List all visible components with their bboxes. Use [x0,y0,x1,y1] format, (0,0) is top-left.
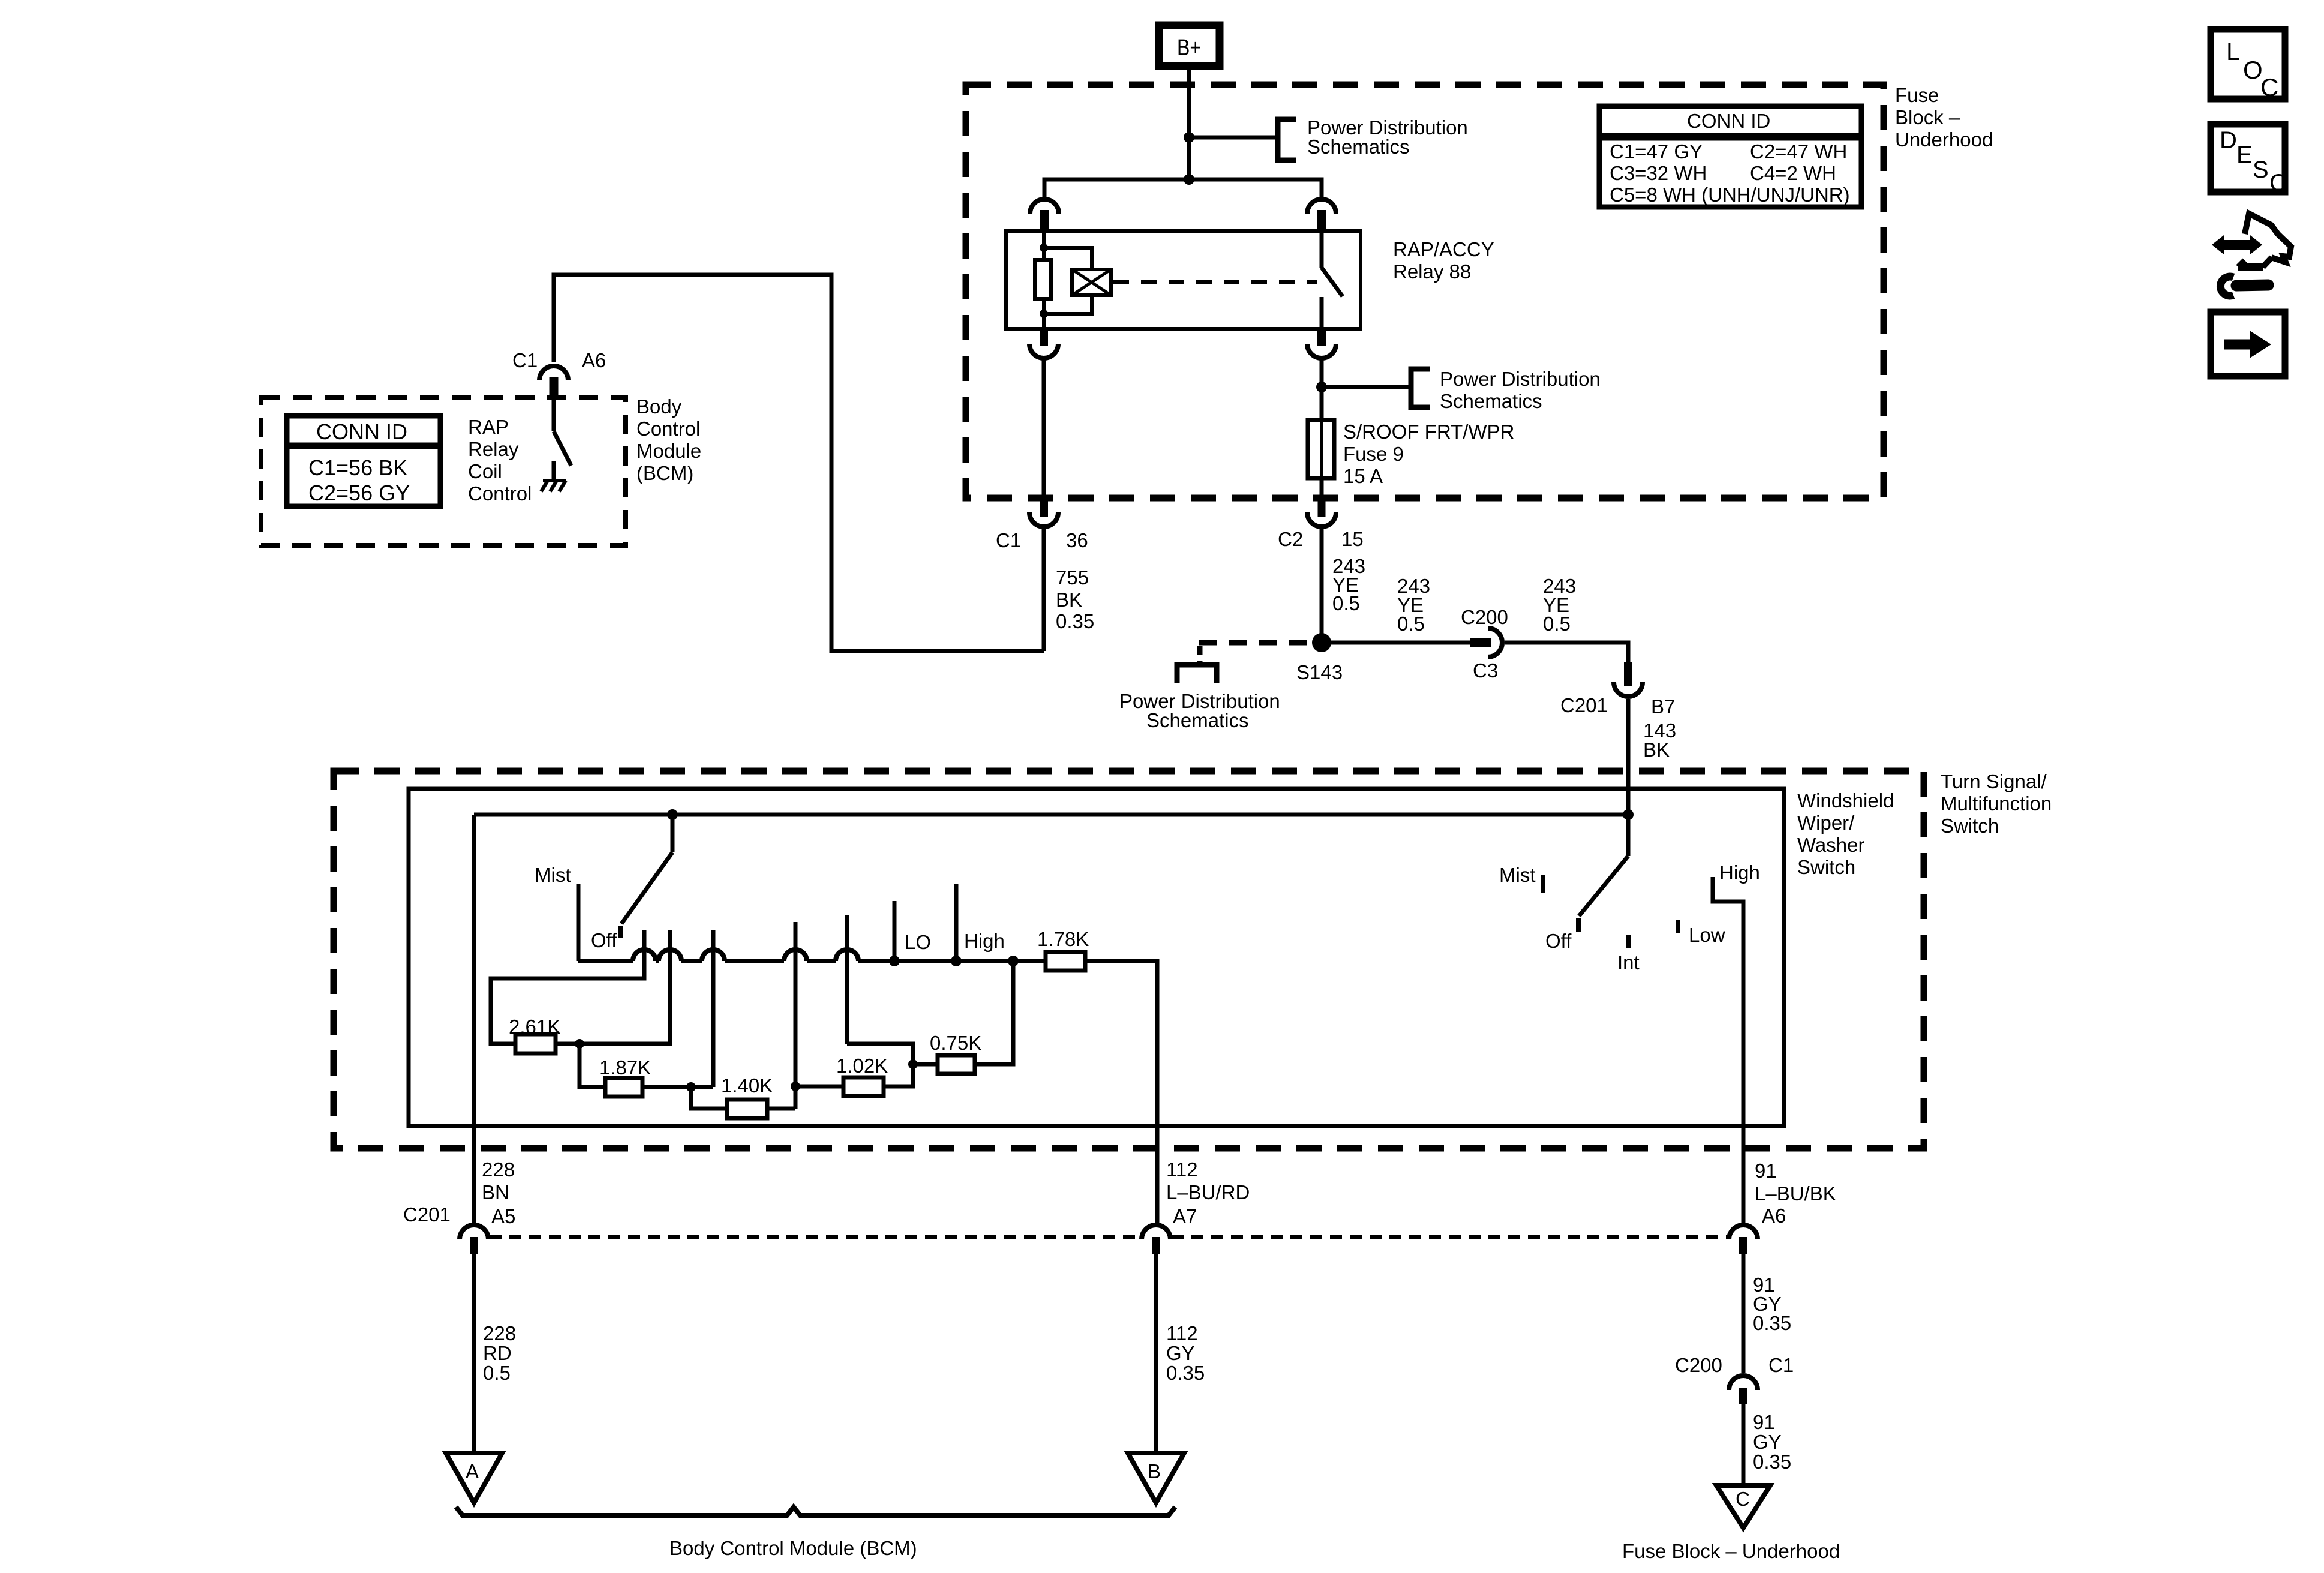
relay K RAP/ACCY Relay 88 box [1006,231,1361,329]
label power distribution schematics (top) [1307,116,1468,158]
svg-text:C3=32 WH: C3=32 WH [1610,162,1707,184]
label wire 91 L-BU/BK [1755,1160,1836,1205]
svg-text:C1=56 BK: C1=56 BK [308,455,407,480]
label Low [1689,924,1725,946]
label High (right) [1719,861,1760,884]
relay coil resistor [1035,231,1051,329]
label body control module [636,395,701,484]
svg-text:A6: A6 [1762,1205,1786,1227]
svg-text:C1: C1 [996,529,1021,551]
node relay coil top [1040,244,1048,252]
label wire 91 GY 0.35 (lower) [1753,1411,1791,1473]
label wire 243 YE 0.5 (second) [1397,575,1430,635]
label S143 [1296,661,1343,683]
label High (ladder) [964,930,1005,952]
label C201 (bottom) [403,1203,451,1226]
fuse F9 S/ROOF FRT/WPR [1308,420,1334,478]
off-page connector bracket (power distribution mid) [1411,369,1430,407]
wire B+ down to feed node [1187,70,1191,179]
resistor 1.87K [605,1078,713,1097]
wire switch feed horizontal [474,813,1628,817]
contact finger 3 [711,930,716,1087]
conn id table (fuse block) [1599,106,1861,207]
label fuse 9 [1343,421,1514,487]
battery feed B+ symbol [1159,25,1220,66]
contact Mist (right) [1541,875,1545,893]
svg-text:C: C [2260,73,2278,101]
svg-text:C: C [1736,1488,1750,1510]
svg-text:Washer: Washer [1797,834,1864,856]
label body control module (bottom) [669,1537,917,1559]
label 1.78K [1037,928,1089,950]
label turn signal multifunction switch [1941,770,2052,837]
label A7 [1173,1205,1197,1227]
svg-text:2.61K: 2.61K [509,1016,560,1038]
svg-text:Off: Off [1545,930,1572,952]
svg-text:C200: C200 [1675,1354,1722,1376]
wire tap [1189,136,1278,140]
svg-text:0.5: 0.5 [1397,613,1425,635]
label A5 [491,1205,515,1227]
label C1 (left) [996,529,1021,551]
connector C201 pin B7 [1614,662,1643,697]
contact Off (right) [1576,918,1581,932]
destination triangle A [446,1453,502,1503]
label C200 (bottom) [1675,1354,1722,1376]
contact Low [1676,920,1680,933]
svg-text:C: C [2269,170,2287,196]
resistor 2.61K [515,1034,580,1053]
svg-text:C4=2 WH: C4=2 WH [1750,162,1836,184]
node ladder 3 [791,1082,800,1091]
svg-text:Fuse: Fuse [1895,84,1939,106]
wire switch output A down [472,815,476,1223]
label 36 [1066,529,1088,551]
svg-text:C201: C201 [403,1203,451,1226]
svg-text:Turn Signal/: Turn Signal/ [1941,770,2047,792]
contact finger 2 [584,930,670,1044]
svg-text:C200: C200 [1461,606,1508,628]
svg-text:0.5: 0.5 [1543,613,1571,635]
connector C2 pin 15 (fuse block right) [1307,498,1336,527]
wire fuse to C2 [1320,478,1324,500]
label 15 [1341,528,1364,550]
svg-text:Control: Control [636,418,700,440]
off-page connector bracket (power distribution top) [1278,119,1296,160]
svg-text:C2: C2 [1278,528,1303,550]
label power distribution schematics (mid) [1440,368,1601,412]
contact High (ladder) [954,884,959,961]
wire C2 to S143 [1320,529,1324,643]
switch rap relay coil control (in BCM) [554,397,571,466]
resistor 1.02K [795,1044,913,1096]
svg-text:High: High [964,930,1005,952]
label wire 112 L-BU/RD [1166,1158,1250,1203]
svg-text:Body: Body [636,395,682,418]
svg-text:0.35: 0.35 [1166,1362,1205,1384]
svg-text:112: 112 [1166,1322,1198,1344]
svg-text:Fuse Block – Underhood: Fuse Block – Underhood [1622,1540,1840,1562]
svg-text:L–BU/BK: L–BU/BK [1755,1182,1836,1205]
svg-text:0.35: 0.35 [1753,1451,1791,1473]
svg-text:S143: S143 [1296,661,1343,683]
label 0.75K [930,1032,981,1054]
svg-text:228: 228 [482,1158,515,1181]
svg-text:Schematics: Schematics [1146,709,1249,731]
relay control dashed link [1113,280,1317,284]
label C200 (top) [1461,606,1508,628]
svg-text:Schematics: Schematics [1307,136,1410,158]
node ladder 4 [908,1059,918,1069]
svg-text:1.87K: 1.87K [599,1056,651,1079]
connector pin A7 [1142,1225,1170,1254]
label fuse block underhood (bottom) [1622,1540,1840,1562]
wire feed split horizontal [1044,179,1322,197]
svg-text:RAP/ACCY: RAP/ACCY [1393,238,1494,260]
svg-text:CONN ID: CONN ID [1687,110,1770,132]
svg-text:A6: A6 [582,349,606,371]
wire node1 down [580,1044,605,1087]
label Off (right) [1545,930,1572,952]
wire S143 to C200 [1331,641,1471,645]
wire node2 down [691,1087,727,1109]
wire 143 BK [1626,699,1631,815]
node tap to power distribution 2 [1316,382,1327,392]
contact finger 4 [794,922,798,1086]
wire relay coil bypass loop [1044,248,1092,314]
svg-text:Module: Module [636,440,701,462]
svg-text:91: 91 [1753,1411,1775,1433]
svg-text:0.35: 0.35 [1753,1312,1791,1334]
label C2 [1278,528,1303,550]
label wire 143 BK [1643,719,1676,761]
connector pin A5 [460,1225,488,1254]
body control module dashed box [261,398,626,545]
icon LOC box [2211,29,2285,101]
label Mist (right) [1499,864,1536,886]
svg-text:BN: BN [482,1181,509,1203]
connector pin relay 85 (right bottom) [1307,329,1336,358]
svg-text:Switch: Switch [1941,815,1999,837]
svg-text:1.78K: 1.78K [1037,928,1089,950]
svg-text:112: 112 [1166,1158,1198,1181]
svg-text:O: O [2243,56,2263,84]
svg-text:L–BU/RD: L–BU/RD [1166,1181,1250,1203]
wire BCM rap relay output loop [554,275,1044,651]
relay solenoid symbol [1072,269,1111,295]
svg-text:Schematics: Schematics [1440,390,1542,412]
wire 91 GY upper [1742,1254,1746,1373]
svg-text:755: 755 [1056,566,1089,589]
contact Off (left) [618,926,623,938]
resistor 0.75K [913,961,1013,1074]
label A6 (bcm pin) [582,349,606,371]
label B7 [1651,695,1675,718]
svg-text:Switch: Switch [1797,856,1855,878]
label Off (left) [591,929,617,951]
label wire 243 YE 0.5 (third) [1543,575,1576,635]
wire C200 to C201 corner [1505,643,1628,664]
contact LO [893,901,897,961]
svg-text:RD: RD [483,1342,512,1364]
label wire 755 BK 0.35 [1056,566,1094,632]
connector pin relay 87 (left bottom) [1029,329,1058,358]
resistor 1.78K [1046,952,1157,1223]
icon forward arrow box [2211,312,2285,376]
node relay coil bottom [1040,310,1048,318]
contact finger 5 [845,915,849,1044]
svg-text:(BCM): (BCM) [636,462,693,484]
node tap to power distribution [1184,132,1194,143]
wire relay left down [1042,359,1046,500]
label wire 228 RD 0.5 [483,1322,516,1384]
svg-text:C3: C3 [1473,659,1498,682]
svg-text:Multifunction: Multifunction [1941,792,2052,815]
icon DESC box [2211,124,2287,196]
connector pin relay 86 (right top) [1307,199,1336,231]
label wire 243 YE 0.5 (first) [1332,555,1365,614]
label LO [905,931,931,953]
connector C200 pin C1 (bottom) [1729,1376,1758,1404]
svg-text:A: A [466,1460,479,1482]
wire tap 2 [1322,385,1410,389]
svg-text:RAP: RAP [468,416,509,438]
wire contact Mist (left) [577,884,581,961]
svg-text:High: High [1719,861,1760,884]
svg-text:L: L [2226,37,2240,65]
node LO [889,956,900,966]
svg-text:0.75K: 0.75K [930,1032,981,1054]
label C201 (top) [1560,694,1608,716]
label windshield wiper washer switch [1797,789,1894,878]
splice S143 [1312,633,1331,652]
relay switch contact [1322,231,1343,329]
label 1.40K [721,1074,773,1097]
svg-text:Block –: Block – [1895,106,1960,128]
svg-text:A7: A7 [1173,1205,1197,1227]
label A6 (bottom) [1762,1205,1786,1227]
svg-text:Mist: Mist [535,864,571,886]
svg-text:C1: C1 [512,349,538,371]
contact High (right) [1713,877,1743,1223]
svg-text:0.5: 0.5 [1332,592,1360,614]
turn signal multifunction switch dashed box [334,771,1924,1148]
off-page pointer (S143) [1177,646,1217,683]
svg-text:15 A: 15 A [1343,465,1383,487]
connector C200 C3 (inline) [1470,628,1502,657]
label wire 228 BN [482,1158,515,1203]
connector C1/A6 at BCM [539,366,568,397]
svg-text:Relay 88: Relay 88 [1393,260,1471,283]
svg-text:CONN ID: CONN ID [316,419,407,444]
label Mist (left) [535,864,571,886]
svg-text:Power Distribution: Power Distribution [1440,368,1601,390]
svg-text:Coil: Coil [468,460,502,482]
contact finger 1 [491,930,644,1044]
svg-text:C1: C1 [1768,1354,1794,1376]
wire 91 GY lower [1742,1404,1746,1485]
label rap relay coil control [468,416,532,505]
svg-text:0.35: 0.35 [1056,610,1094,632]
brace body control module [456,1507,1175,1515]
svg-text:91: 91 [1755,1160,1777,1182]
svg-text:C1=47 GY: C1=47 GY [1610,140,1703,163]
switch washer mode (right) [1579,815,1628,916]
svg-text:1.02K: 1.02K [836,1055,888,1077]
svg-text:228: 228 [483,1322,516,1344]
wire resistor bus [578,950,1046,961]
label C3 [1473,659,1498,682]
node High [951,956,962,966]
resistor 1.40K [727,1100,795,1118]
label 1.87K [599,1056,651,1079]
label C1 (bottom) [1768,1354,1794,1376]
node right switch pivot [1623,809,1634,820]
wire relay right down [1320,359,1324,420]
svg-text:C2=47 WH: C2=47 WH [1750,140,1847,163]
switch wiper rotary (left) [621,815,672,924]
svg-text:0.5: 0.5 [483,1362,511,1384]
svg-text:36: 36 [1066,529,1088,551]
conn id table (BCM) [287,416,440,506]
svg-text:GY: GY [1753,1431,1782,1453]
label power distribution schematics (S143) [1119,690,1280,731]
windshield wiper washer switch box [409,789,1784,1126]
svg-text:LO: LO [905,931,931,953]
svg-text:Low: Low [1689,924,1725,946]
svg-text:Fuse 9: Fuse 9 [1343,443,1404,465]
svg-text:Body Control Module (BCM): Body Control Module (BCM) [669,1537,917,1559]
node ladder 1 [575,1039,584,1049]
svg-text:15: 15 [1341,528,1364,550]
wire finger4 to 1.40K [794,1086,798,1109]
svg-text:Control: Control [468,482,532,505]
svg-text:S: S [2253,157,2269,183]
label C1 (bcm connector) [512,349,538,371]
label 2.61K [509,1016,560,1038]
icon diagnostic arrow and wrench [2212,214,2291,296]
svg-text:A5: A5 [491,1205,515,1227]
svg-text:Windshield: Windshield [1797,789,1894,812]
node 0.75K output [1008,956,1019,966]
fuse block underhood dashed box [966,85,1884,498]
destination triangle C [1716,1485,1770,1528]
svg-text:Off: Off [591,929,617,951]
destination triangle B [1128,1453,1184,1503]
label wire 112 GY 0.35 [1166,1322,1205,1384]
connector pin A6 [1729,1225,1758,1254]
wire 755 BK [1042,529,1046,651]
svg-text:B7: B7 [1651,695,1675,718]
svg-text:BK: BK [1643,739,1670,761]
connector pin relay 30 (left top) [1030,199,1059,231]
node feed split [1184,174,1194,185]
wire 112 GY [1154,1254,1158,1453]
label Int [1617,951,1640,974]
wire dashed to power distribution (S143 left) [1199,640,1311,646]
node ladder 2 [686,1082,696,1092]
svg-text:C5=8 WH (UNH/UNJ/UNR): C5=8 WH (UNH/UNJ/UNR) [1610,184,1850,206]
svg-text:BK: BK [1056,589,1082,611]
contact Int [1626,935,1631,948]
svg-text:Int: Int [1617,951,1640,974]
label 1.02K [836,1055,888,1077]
svg-text:Wiper/: Wiper/ [1797,812,1855,834]
label RAP/ACCY Relay 88 [1393,238,1494,283]
svg-text:Relay: Relay [468,438,519,460]
svg-text:E: E [2236,142,2253,168]
connector C1 pin 36 (fuse block left) [1029,500,1058,527]
svg-text:C2=56 GY: C2=56 GY [308,481,410,505]
svg-text:D: D [2220,127,2237,154]
wire 228 RD [472,1254,476,1453]
svg-text:B+: B+ [1177,35,1201,61]
svg-text:S/ROOF FRT/WPR: S/ROOF FRT/WPR [1343,421,1514,443]
connector C201 dotted harness line [490,1235,1728,1239]
label fuse block underhood [1895,84,1993,151]
label wire 91 GY 0.35 (upper) [1753,1274,1791,1334]
svg-text:Underhood: Underhood [1895,128,1993,151]
node left wiper switch pivot [667,809,678,820]
svg-text:1.40K: 1.40K [721,1074,773,1097]
svg-text:C201: C201 [1560,694,1608,716]
svg-text:B: B [1148,1460,1161,1482]
svg-text:Mist: Mist [1499,864,1536,886]
svg-text:GY: GY [1166,1342,1195,1364]
ground (BCM internal) [541,461,566,491]
